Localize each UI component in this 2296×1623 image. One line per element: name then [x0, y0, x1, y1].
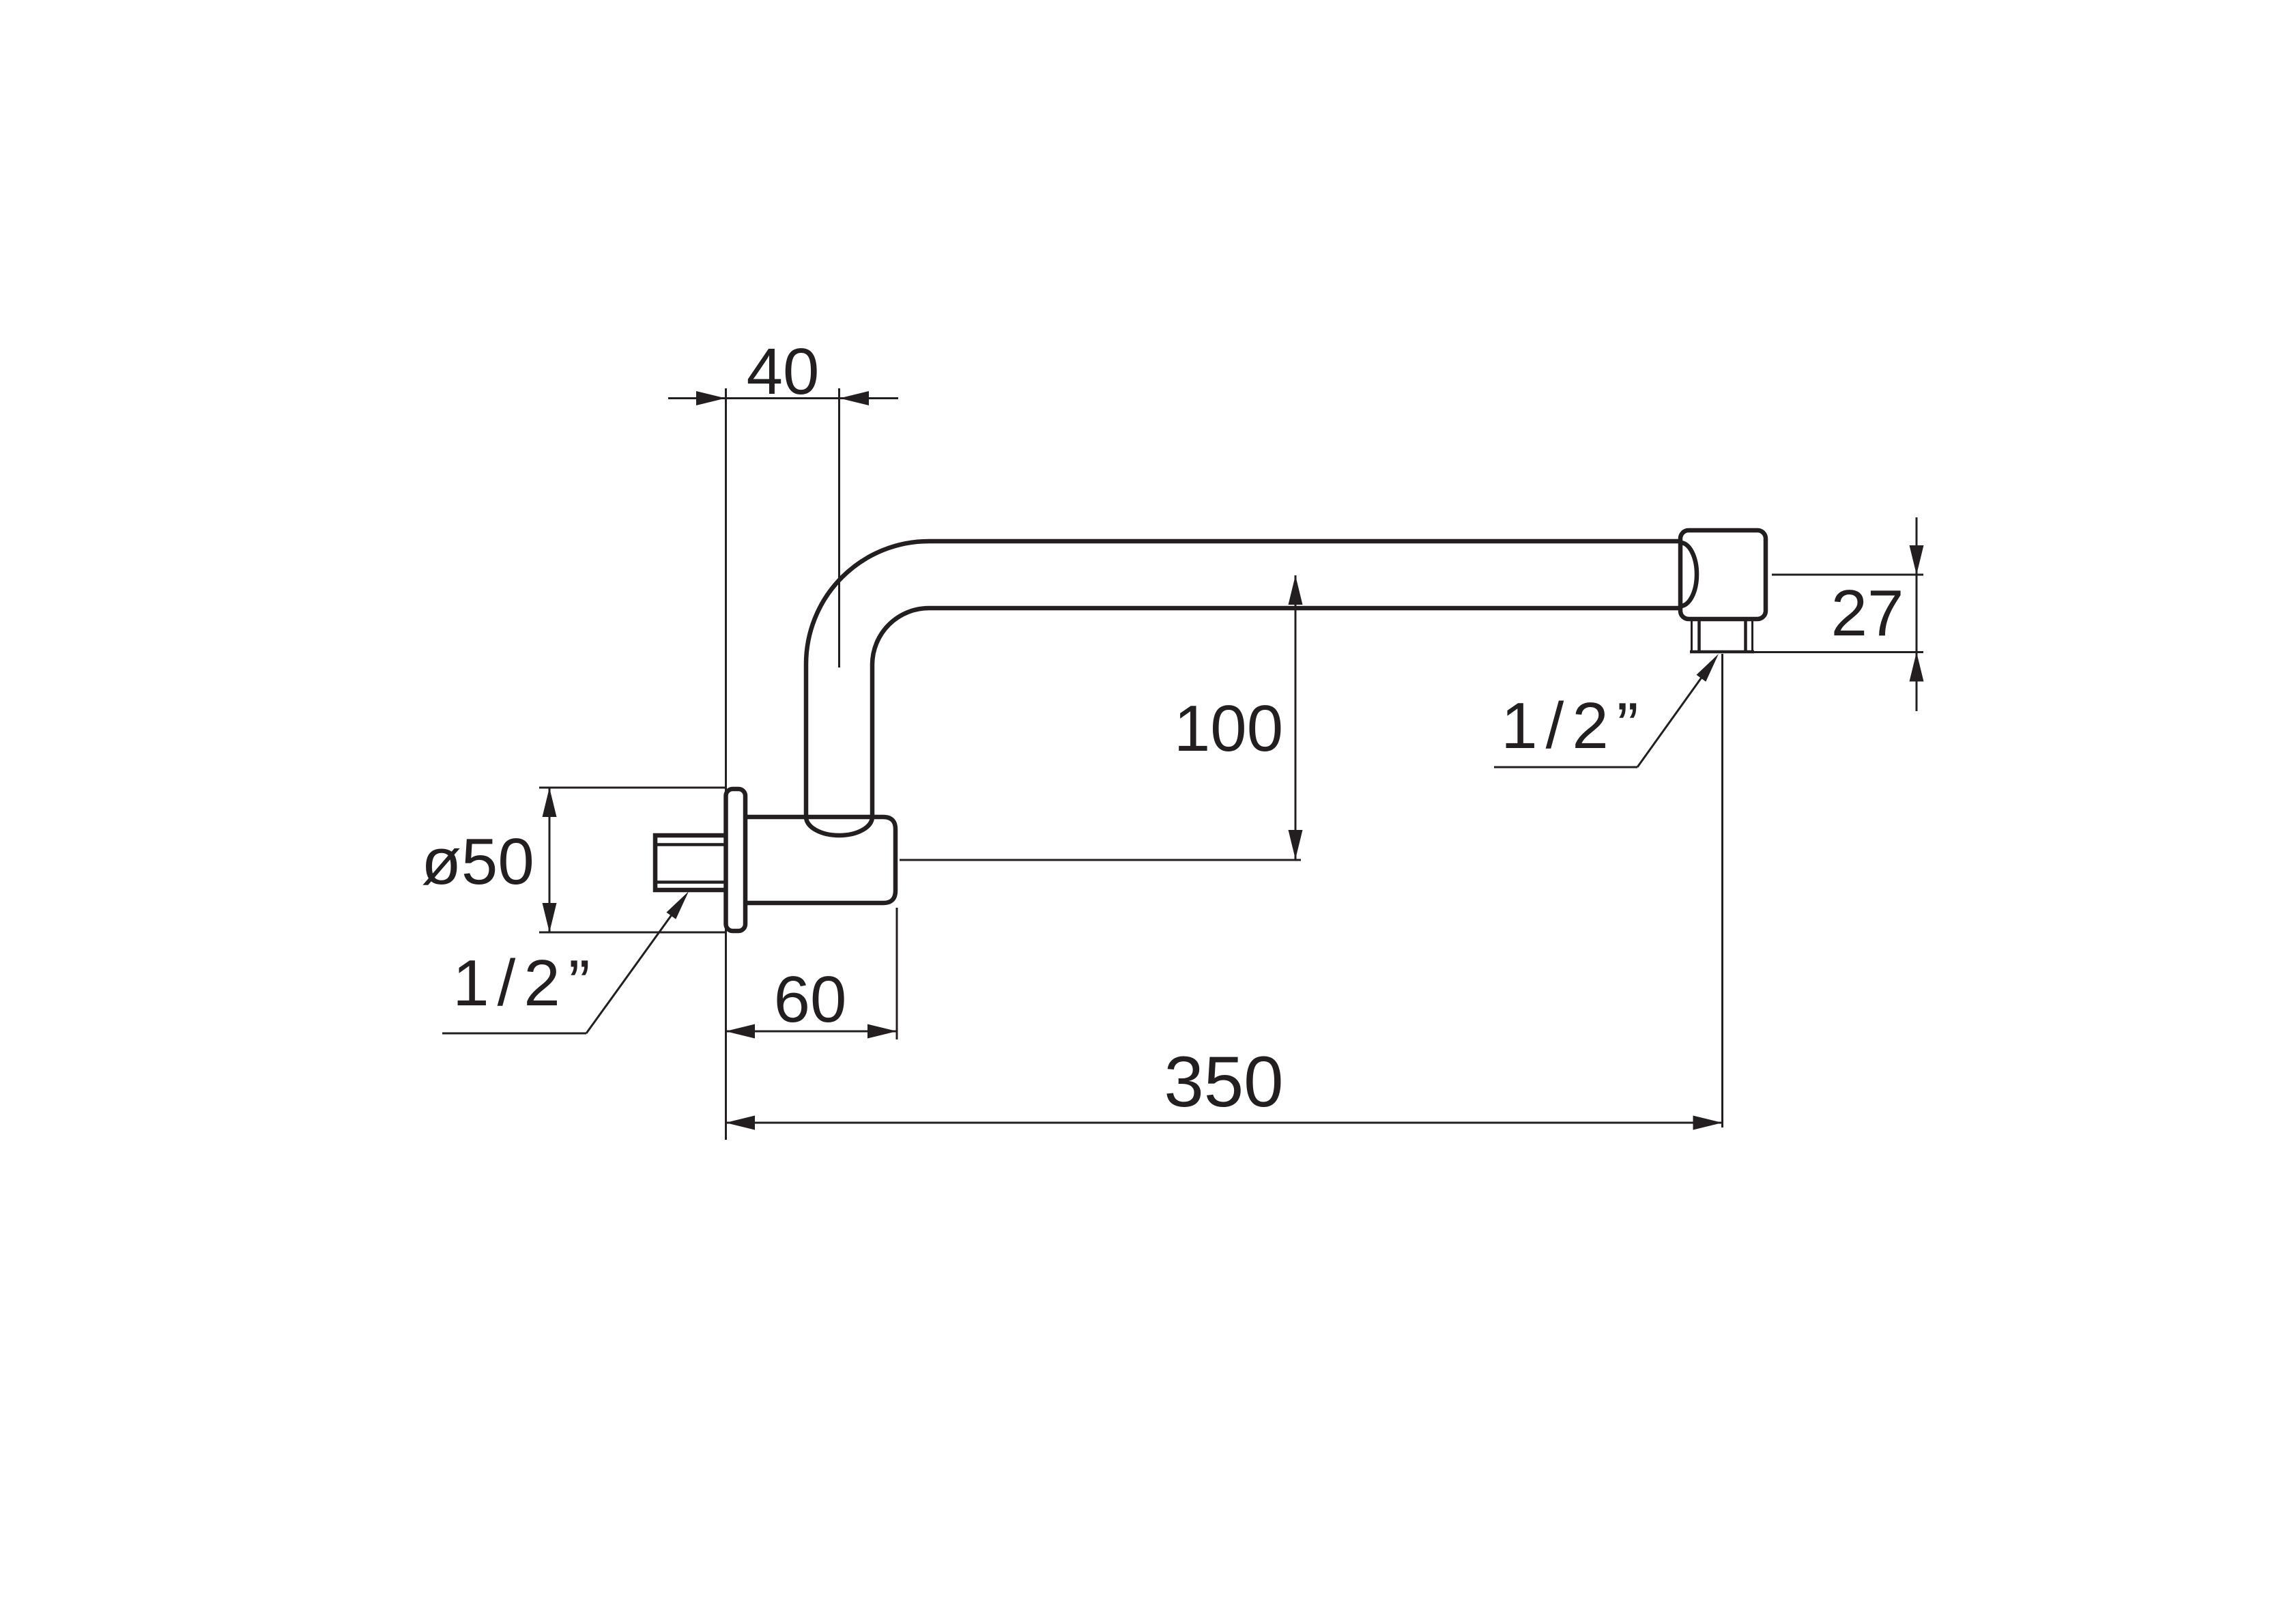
40 right extension line	[838, 388, 840, 667]
end cap	[1680, 530, 1766, 619]
100 bottom reference line	[900, 859, 1301, 861]
outlet nipple outer right edge	[1751, 619, 1753, 652]
svg-text:1/2”: 1/2”	[453, 947, 598, 1020]
350 dimension line	[726, 1122, 1722, 1124]
left 1/2 inch leader underline	[442, 1033, 586, 1035]
shower arm bend inner arc	[872, 608, 929, 664]
60 right arrow	[867, 1024, 897, 1039]
diameter 50 dimension line	[549, 788, 551, 932]
100 top arrow	[1289, 575, 1303, 605]
right 1/2 inch leader arrow	[1697, 654, 1719, 682]
60 dimension line	[726, 1031, 897, 1033]
outlet nipple thread right line	[1744, 619, 1747, 652]
27 bottom reference line	[1754, 651, 1923, 653]
outlet nipple thread left line	[1697, 619, 1701, 652]
40 right arrow	[840, 391, 869, 405]
27 dimension line	[1916, 517, 1918, 711]
union nut facet line top	[655, 843, 726, 846]
right 1/2 inch leader line	[1637, 661, 1713, 767]
outlet nipple bottom edge	[1690, 650, 1754, 654]
svg-text:27: 27	[1831, 577, 1904, 650]
27 top reference line	[1772, 574, 1923, 576]
right 1/2 inch leader underline	[1494, 766, 1637, 769]
350 right arrow	[1693, 1116, 1723, 1130]
diameter 50 bottom reference line	[539, 932, 726, 934]
60 right extension line	[896, 908, 898, 1039]
27 top arrow	[1910, 545, 1924, 575]
40 left arrow	[696, 391, 726, 405]
left 1/2 inch leader arrow	[666, 891, 689, 919]
shower arm vertical pipe right edge	[870, 664, 875, 819]
wall flange	[726, 789, 746, 931]
diameter 50 top arrow	[543, 788, 557, 817]
shower arm horizontal pipe bottom edge	[929, 606, 1680, 611]
100 dimension line	[1295, 575, 1297, 859]
diameter 50 bottom arrow	[543, 903, 557, 932]
pipe to cap junction arc	[1680, 543, 1697, 606]
svg-text:1/2”: 1/2”	[1501, 689, 1646, 762]
350 left arrow	[726, 1116, 755, 1130]
union nut facet line bottom	[655, 880, 726, 884]
shower arm horizontal pipe top edge	[929, 539, 1680, 544]
shower arm vertical pipe left edge	[804, 664, 809, 819]
svg-text:350: 350	[1164, 1042, 1283, 1122]
svg-text:60: 60	[774, 963, 847, 1036]
350 right extension line	[1721, 654, 1723, 1128]
svg-text:100: 100	[1174, 692, 1283, 765]
diameter 50 top reference line	[539, 787, 726, 789]
svg-text:ø50: ø50	[421, 825, 534, 898]
60 left arrow	[726, 1024, 755, 1039]
outlet nipple outer left edge	[1691, 619, 1693, 652]
100 bottom arrow	[1289, 830, 1303, 859]
shower arm bend outer arc	[806, 541, 929, 664]
union nut	[655, 835, 728, 890]
left 1/2 inch leader line	[586, 899, 683, 1033]
spout body	[744, 817, 895, 903]
wall extension line	[725, 388, 727, 1140]
27 bottom arrow	[1910, 652, 1924, 682]
svg-text:40: 40	[747, 335, 820, 408]
pipe to body junction arc	[806, 817, 872, 835]
40 dimension line	[668, 397, 898, 399]
